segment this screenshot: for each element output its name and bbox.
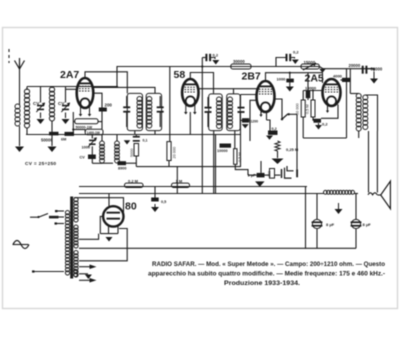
svg-text:0,1: 0,1: [143, 139, 148, 143]
wire 2A5 grid from arrow: [322, 73, 324, 83]
antenna lead-in dashes: [8, 49, 10, 52]
2B7 grid return wire: [250, 100, 257, 141]
wire screen line: [346, 69, 348, 138]
wire grid top bus: [27, 86, 117, 88]
svg-text:10000: 10000: [217, 149, 228, 153]
main HT bus corner: [117, 67, 319, 87]
filter capacitor 0,5: [154, 187, 156, 198]
svg-text:2B7: 2B7: [242, 70, 261, 82]
speaker: [381, 181, 391, 209]
svg-text:2A7: 2A7: [60, 69, 79, 81]
wire: [260, 161, 262, 173]
svg-text:CV = 25÷250: CV = 25÷250: [25, 161, 56, 167]
svg-text:1000: 1000: [277, 76, 287, 81]
wire diode line: [240, 95, 242, 107]
svg-text:0,2: 0,2: [322, 122, 328, 127]
svg-text:20000: 20000: [349, 63, 361, 68]
mains switch: [30, 216, 38, 218]
2A7 screen wire: [93, 93, 102, 129]
capacitor 0,2 left: [202, 57, 205, 59]
wire bias bus: [303, 137, 346, 139]
resistor 0,5M diode load: [234, 149, 237, 165]
wire bus to 58: [169, 67, 171, 142]
resistor 300: [270, 169, 275, 179]
oscillator coil L2: [51, 87, 53, 89]
svg-text:0,2: 0,2: [293, 50, 299, 55]
ground arrow filter: [338, 203, 340, 209]
arrow tap 1: [79, 266, 92, 268]
svg-text:1400-1W: 1400-1W: [87, 131, 100, 135]
resistor 10000: [220, 144, 232, 148]
svg-text:58: 58: [174, 69, 186, 81]
svg-text:80: 80: [125, 201, 137, 213]
svg-text:8 μF: 8 μF: [363, 222, 372, 227]
capacitor 0,2 right: [276, 58, 286, 67]
svg-text:0,2 M: 0,2 M: [128, 178, 139, 183]
power transformer secondary LV: [74, 225, 78, 229]
svg-text:0,2: 0,2: [213, 53, 219, 58]
antenna coil L1 primary: [15, 104, 20, 109]
field coil: [324, 190, 328, 194]
IF transformer 1 can right: [146, 93, 161, 130]
IFT1 primary coil: [137, 97, 142, 102]
capacitor blocking: [91, 146, 93, 154]
58 cathode wire: [189, 112, 191, 135]
mains terminal: [58, 210, 65, 212]
wire: [26, 134, 241, 136]
output transformer T2 primary: [356, 94, 361, 99]
wire AVC bus: [136, 166, 240, 168]
ground antenna: [15, 147, 24, 153]
svg-text:Produzione 1933-1934.: Produzione 1933-1934.: [224, 281, 300, 287]
potentiometer 0,25M volume: [275, 141, 280, 151]
wire screen feed: [201, 58, 203, 194]
resistor 8900: [118, 161, 127, 165]
IF transformer 2 can right: [227, 94, 241, 131]
riser: [305, 187, 307, 249]
wire heater run: [79, 229, 127, 261]
svg-text:0,5 M: 0,5 M: [306, 105, 310, 115]
svg-text:300: 300: [267, 171, 271, 177]
svg-text:0,5: 0,5: [161, 200, 166, 204]
capacitor 1200: [241, 119, 242, 121]
svg-text:10000: 10000: [305, 85, 317, 90]
ground oscillator coil: [48, 147, 57, 153]
wire riser AVC: [176, 167, 178, 194]
wire bias bottom: [302, 117, 304, 138]
svg-text:6M: 6M: [61, 137, 66, 141]
svg-text:1 M: 1 M: [176, 178, 183, 183]
transformer bottom terminal: [34, 271, 64, 273]
svg-text:4000: 4000: [333, 73, 343, 78]
T2 bottom leads: [358, 131, 360, 138]
2A7 plate wire: [93, 87, 155, 93]
arrow to 2A5 grid: [319, 67, 374, 69]
power transformer secondary HV: [74, 198, 78, 202]
IFT2 secondary capacitor: [238, 107, 245, 109]
capacitor 0,2 det: [267, 120, 271, 131]
ground arrow mid: [124, 140, 131, 144]
svg-text:apparecchio ha subito quattro: apparecchio ha subito quattro modifiche.…: [148, 272, 385, 278]
svg-text:1200: 1200: [251, 120, 259, 124]
electrolytic 8uF second: [351, 219, 360, 228]
svg-text:0,5 M: 0,5 M: [238, 153, 242, 163]
IF transformer 2 can left: [209, 94, 223, 131]
resistor 50000-1W: [75, 119, 98, 124]
80 plate wires: [74, 198, 124, 217]
oscillator anode coil L3: [101, 135, 103, 142]
wire elco2 top: [355, 194, 357, 220]
headphone jack: [281, 169, 283, 178]
terminal lower: [57, 223, 65, 225]
svg-text:2A5: 2A5: [305, 72, 324, 84]
speaker wires: [368, 131, 370, 193]
wire IFT2 ground: [215, 135, 217, 194]
resistor 0,5M bias: [311, 100, 315, 117]
svg-text:20 000: 20 000: [173, 147, 177, 159]
switch tone: [275, 99, 283, 118]
power transformer secondary fil: [74, 251, 78, 255]
svg-text:5000: 5000: [130, 149, 134, 157]
bus B+: [79, 193, 324, 195]
2A5 grid node wire: [303, 90, 322, 92]
IFT1 secondary coil: [147, 97, 152, 102]
svg-text:8 μF: 8 μF: [326, 222, 335, 227]
arrow tap 2 ground: [79, 273, 88, 275]
svg-text:CV: CV: [80, 156, 86, 160]
ground cathode: [318, 123, 320, 125]
58 top cap wire: [190, 73, 213, 94]
svg-text:50 000: 50 000: [296, 103, 300, 115]
svg-text:8900: 8900: [118, 167, 126, 171]
IFT1 secondary capacitor: [157, 106, 164, 108]
svg-text:200: 200: [105, 103, 113, 108]
IFT2 primary coil: [217, 97, 222, 102]
output transformer T2 secondary: [363, 95, 368, 100]
electrolytic 8uF first: [316, 194, 318, 220]
resistor 6M: [65, 132, 75, 136]
resistor 1400-1W: [85, 129, 103, 135]
2A7 top cap wire: [85, 72, 127, 94]
2B7 pins: [260, 111, 262, 115]
power transformer primary: [65, 211, 69, 215]
wire: [92, 162, 102, 164]
IF transformer 1 can left: [127, 93, 142, 130]
resistor 20000 screen: [167, 142, 171, 161]
2B7 top cap wire: [266, 73, 323, 81]
coil L4: [116, 135, 118, 142]
58 plate wire: [199, 88, 258, 90]
IFT2 primary capacitor: [205, 107, 212, 109]
resistor 5000: [134, 144, 139, 157]
wire plate feed: [349, 69, 351, 94]
AC symbol: [13, 241, 29, 249]
arrow tap 3: [79, 279, 92, 281]
bus AVC resistors: [79, 186, 307, 188]
svg-text:0,2: 0,2: [272, 127, 277, 131]
2A7 grid wire: [66, 88, 77, 90]
80 filament wires: [100, 216, 103, 233]
power transformer core: [70, 197, 73, 279]
ground 1uF: [255, 181, 264, 186]
resistor 50000 grid leak: [49, 132, 59, 136]
bottom ground bus: [79, 247, 356, 249]
svg-text:50000: 50000: [41, 138, 53, 143]
IFT1 leads: [134, 131, 136, 135]
2A5 cathode leg wire: [327, 105, 329, 111]
T2 top leads: [350, 93, 358, 95]
antenna coil L1 secondary: [24, 89, 29, 94]
resistor 50000 bias: [301, 100, 305, 117]
IFT2 secondary coil: [228, 97, 233, 102]
capacitor 0,1 screen: [133, 136, 140, 138]
svg-text:30000: 30000: [233, 59, 245, 64]
wire 2A7 cathode drop: [72, 112, 74, 135]
IFT1 primary capacitor: [123, 106, 130, 108]
capacitor 0,2 cathode: [314, 119, 322, 123]
wire jack down: [296, 114, 298, 169]
antenna: [19, 63, 21, 105]
IFT2 leads: [213, 131, 215, 194]
svg-text:RADIO SAFAR. — Mod. « Super Me: RADIO SAFAR. — Mod. « Super Metode ». — …: [152, 262, 385, 268]
